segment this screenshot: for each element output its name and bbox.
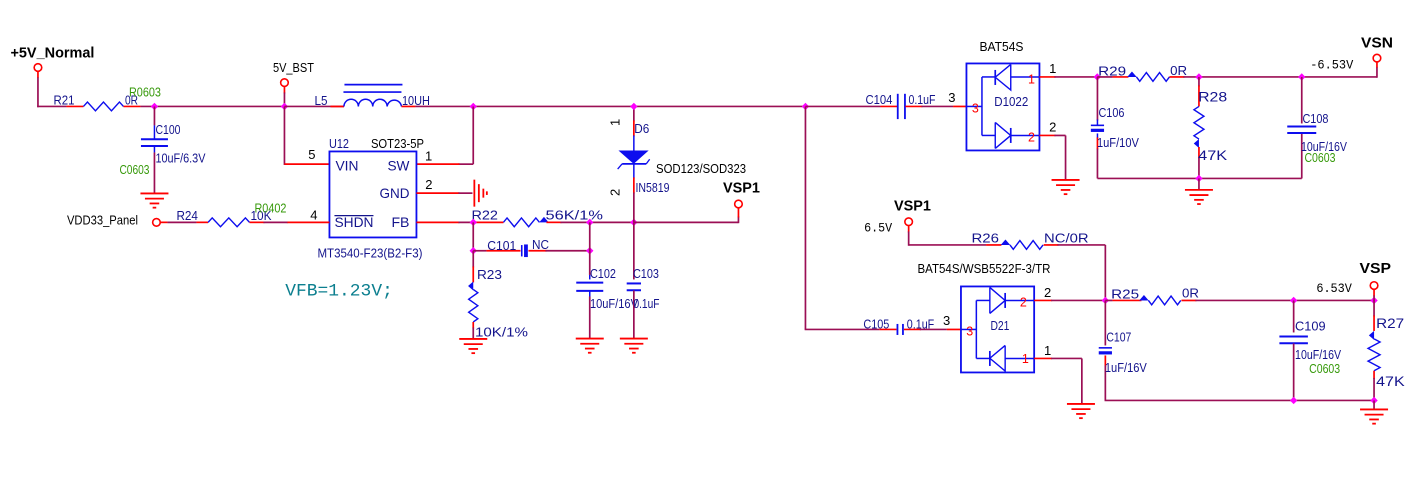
- junction node FB: [470, 219, 477, 226]
- svg-text:-6.53V: -6.53V: [1310, 58, 1353, 72]
- wire: [921, 105, 953, 107]
- wire: [1054, 134, 1065, 136]
- svg-text:3: 3: [948, 90, 955, 105]
- wire: [634, 221, 739, 223]
- svg-text:D6: D6: [634, 121, 649, 136]
- terminal VDD33_Panel: [153, 219, 161, 227]
- svg-text:1: 1: [1044, 343, 1051, 358]
- wire: [545, 250, 589, 252]
- svg-text:SOD123/SOD323: SOD123/SOD323: [656, 161, 746, 176]
- wire: [283, 106, 285, 165]
- svg-text:NC: NC: [532, 237, 549, 252]
- svg-text:U12: U12: [329, 136, 349, 151]
- wire: [284, 105, 344, 107]
- svg-text:C0603: C0603: [119, 163, 149, 177]
- svg-text:VSP1: VSP1: [723, 180, 760, 196]
- terminal 5V_BST: [281, 79, 289, 87]
- resistor R27: [1373, 300, 1375, 316]
- wire: [1376, 67, 1378, 78]
- ground: [1360, 408, 1388, 410]
- svg-text:R27: R27: [1376, 315, 1404, 331]
- svg-text:VDD33_Panel: VDD33_Panel: [67, 212, 138, 227]
- svg-text:6.5V: 6.5V: [864, 221, 892, 235]
- svg-text:C0603: C0603: [1304, 151, 1335, 165]
- ground: [1067, 403, 1095, 405]
- svg-text:47K: 47K: [1376, 373, 1405, 389]
- junction: [1370, 297, 1377, 304]
- junction: [1370, 397, 1377, 404]
- svg-text:BAT54S/WSB5522F-3/TR: BAT54S/WSB5522F-3/TR: [917, 261, 1050, 276]
- svg-text:10uF/16V: 10uF/16V: [1295, 347, 1341, 362]
- svg-text:C100: C100: [155, 122, 180, 137]
- capacitor C103: [633, 222, 635, 279]
- svg-text:5: 5: [308, 147, 315, 162]
- svg-text:3: 3: [966, 324, 973, 338]
- pin 2 GND stub: [416, 192, 459, 194]
- svg-text:SHDN: SHDN: [334, 214, 373, 230]
- terminal VSP1: [735, 200, 743, 208]
- svg-text:2: 2: [607, 189, 622, 196]
- capacitor C100: [153, 106, 155, 125]
- svg-text:BAT54S: BAT54S: [979, 39, 1023, 54]
- capacitor C102: [589, 275, 591, 280]
- wire: [263, 221, 287, 223]
- terminal +5V_Normal: [34, 64, 42, 72]
- junction: [1094, 73, 1101, 80]
- wire: [1198, 178, 1200, 189]
- svg-text:1: 1: [425, 148, 432, 163]
- wire: [140, 105, 284, 107]
- junction: [586, 247, 593, 254]
- svg-text:L5: L5: [314, 93, 327, 108]
- svg-text:1uF/10V: 1uF/10V: [1097, 135, 1139, 150]
- svg-text:56K/1%: 56K/1%: [545, 207, 603, 222]
- wire: [804, 106, 806, 329]
- svg-text:C107: C107: [1106, 329, 1131, 344]
- resistor R23: [472, 251, 474, 268]
- svg-text:C109: C109: [1295, 318, 1326, 333]
- svg-text:10K/1%: 10K/1%: [475, 324, 528, 339]
- svg-text:VSN: VSN: [1361, 35, 1393, 51]
- wire: [805, 105, 880, 107]
- svg-text:0.1uF: 0.1uF: [633, 296, 659, 311]
- svg-text:NC/0R: NC/0R: [1044, 230, 1089, 245]
- wire: [1373, 400, 1375, 409]
- resistor R21: [66, 105, 83, 107]
- junction: [470, 247, 477, 254]
- junction: [1195, 175, 1202, 182]
- svg-text:1: 1: [1028, 72, 1035, 86]
- capacitor C101 (NC): [473, 250, 486, 252]
- wire: [37, 71, 39, 78]
- svg-text:1: 1: [1049, 61, 1056, 76]
- junction: [1290, 297, 1297, 304]
- svg-text:C0603: C0603: [1309, 362, 1340, 376]
- terminal VSN: [1373, 54, 1381, 62]
- capacitor C108: [1301, 77, 1303, 124]
- pin 2 stub: [1034, 299, 1052, 301]
- ground: [1185, 189, 1213, 191]
- wire (bottom rail): [1097, 177, 1301, 179]
- svg-text:C101: C101: [487, 238, 516, 253]
- op-amp U12 (MT3540 boost converter): [329, 151, 416, 237]
- svg-text:R26: R26: [971, 230, 999, 245]
- resistor R24: [160, 221, 167, 223]
- terminal VSP1 lower: [905, 218, 913, 226]
- svg-text:47K: 47K: [1198, 147, 1228, 163]
- ground (earth bars): [473, 180, 475, 207]
- ground: [140, 192, 168, 194]
- svg-text:2: 2: [1028, 130, 1035, 144]
- svg-text:FB: FB: [391, 214, 409, 230]
- svg-text:3: 3: [972, 101, 979, 115]
- svg-text:C103: C103: [633, 266, 659, 281]
- wire (bottom rail): [1105, 399, 1375, 401]
- wire: [1051, 299, 1105, 301]
- diode pair D21 (BAT54S): [961, 286, 1034, 372]
- svg-text:1uF/16V: 1uF/16V: [1105, 360, 1147, 375]
- pin 1 stub: [1034, 357, 1052, 359]
- junction: [1298, 73, 1305, 80]
- svg-text:R25: R25: [1111, 286, 1139, 301]
- svg-text:10uF/6.3V: 10uF/6.3V: [155, 150, 205, 165]
- svg-text:R0402: R0402: [254, 201, 286, 215]
- junction: [802, 103, 809, 110]
- svg-text:GND: GND: [379, 185, 409, 201]
- capacitor C104: [880, 105, 897, 107]
- ground: [576, 338, 604, 340]
- junction: [1195, 73, 1202, 80]
- junction: [586, 219, 593, 226]
- svg-text:D1022: D1022: [994, 94, 1028, 109]
- svg-text:2: 2: [1049, 119, 1056, 134]
- svg-text:C108: C108: [1302, 111, 1328, 126]
- svg-text:SW: SW: [387, 157, 410, 173]
- ground: [1052, 179, 1080, 181]
- pin 2 stub: [1039, 134, 1055, 136]
- junction: [630, 219, 637, 226]
- svg-text:C102: C102: [590, 266, 616, 281]
- capacitor C105: [879, 328, 896, 330]
- junction: [151, 103, 158, 110]
- capacitor C107: [1104, 300, 1106, 345]
- svg-text:R0603: R0603: [129, 85, 161, 99]
- svg-text:6.53V: 6.53V: [1316, 282, 1352, 296]
- svg-text:R23: R23: [477, 267, 502, 282]
- svg-text:1: 1: [607, 119, 622, 126]
- diode D6 (schottky): [633, 106, 635, 121]
- resistor R28: [1198, 77, 1200, 87]
- svg-text:C105: C105: [863, 316, 889, 331]
- junction: [630, 103, 637, 110]
- resistor R29: [1112, 76, 1128, 78]
- resistor R22: [416, 221, 459, 223]
- svg-text:VFB=1.23V;: VFB=1.23V;: [285, 281, 393, 301]
- wire: [458, 192, 472, 194]
- wire: [1057, 244, 1105, 246]
- wire: [1373, 289, 1375, 296]
- wire: [1097, 76, 1112, 78]
- pin 3 stub (D1022): [953, 105, 966, 107]
- svg-text:C104: C104: [865, 92, 892, 107]
- svg-text:SOT23-5P: SOT23-5P: [371, 136, 424, 151]
- resistor R26: [986, 244, 1001, 246]
- svg-text:0.1uF: 0.1uF: [908, 92, 935, 107]
- capacitor C106: [1096, 77, 1098, 121]
- svg-text:VSP1: VSP1: [894, 198, 931, 214]
- svg-text:1: 1: [1022, 352, 1029, 366]
- wire: [908, 225, 910, 232]
- svg-text:3: 3: [943, 313, 950, 328]
- svg-text:MT3540-F23(B2-F3): MT3540-F23(B2-F3): [317, 245, 422, 260]
- svg-text:2: 2: [425, 177, 432, 192]
- pin 3 stub (D21): [947, 328, 961, 330]
- svg-text:R22: R22: [471, 207, 498, 222]
- wire: [560, 221, 633, 223]
- junction: [1290, 397, 1297, 404]
- svg-text:VSP: VSP: [1359, 261, 1391, 277]
- junction: [470, 103, 477, 110]
- svg-text:4: 4: [310, 207, 317, 222]
- svg-text:C106: C106: [1098, 105, 1124, 120]
- diode pair D1022 (BAT54S): [966, 63, 1039, 150]
- pin 4 SHDN stub: [287, 221, 330, 223]
- wire: [589, 222, 591, 275]
- wire: [415, 105, 805, 107]
- junction: [281, 103, 288, 110]
- wire: [1054, 76, 1097, 78]
- svg-text:R21: R21: [53, 92, 74, 107]
- resistor R25: [1112, 299, 1141, 301]
- svg-text:D21: D21: [990, 318, 1009, 333]
- pin 1 stub: [1039, 76, 1055, 78]
- svg-text:0R: 0R: [1170, 63, 1187, 78]
- ground: [620, 338, 648, 340]
- wire: [920, 328, 947, 330]
- svg-text:VIN: VIN: [335, 157, 358, 173]
- capacitor C109: [1293, 300, 1295, 332]
- wire: [1105, 299, 1112, 301]
- junction: [1102, 297, 1109, 304]
- svg-text:R24: R24: [176, 208, 198, 223]
- svg-text:+5V_Normal: +5V_Normal: [10, 45, 94, 61]
- wire: [472, 222, 474, 250]
- pin 1 SW stub: [416, 163, 459, 165]
- wire: [1051, 357, 1082, 359]
- svg-text:R28: R28: [1198, 88, 1227, 104]
- wire: [472, 106, 474, 164]
- terminal VSP: [1370, 282, 1378, 290]
- svg-text:IN5819: IN5819: [635, 180, 669, 195]
- pin 5 VIN stub: [284, 163, 329, 165]
- svg-text:0R: 0R: [1182, 285, 1199, 300]
- svg-text:10uF/16V: 10uF/16V: [590, 296, 638, 311]
- wire: [283, 86, 285, 93]
- ground: [459, 338, 487, 340]
- svg-text:2: 2: [1044, 285, 1051, 300]
- svg-text:2: 2: [1020, 295, 1027, 309]
- svg-text:5V_BST: 5V_BST: [273, 60, 314, 75]
